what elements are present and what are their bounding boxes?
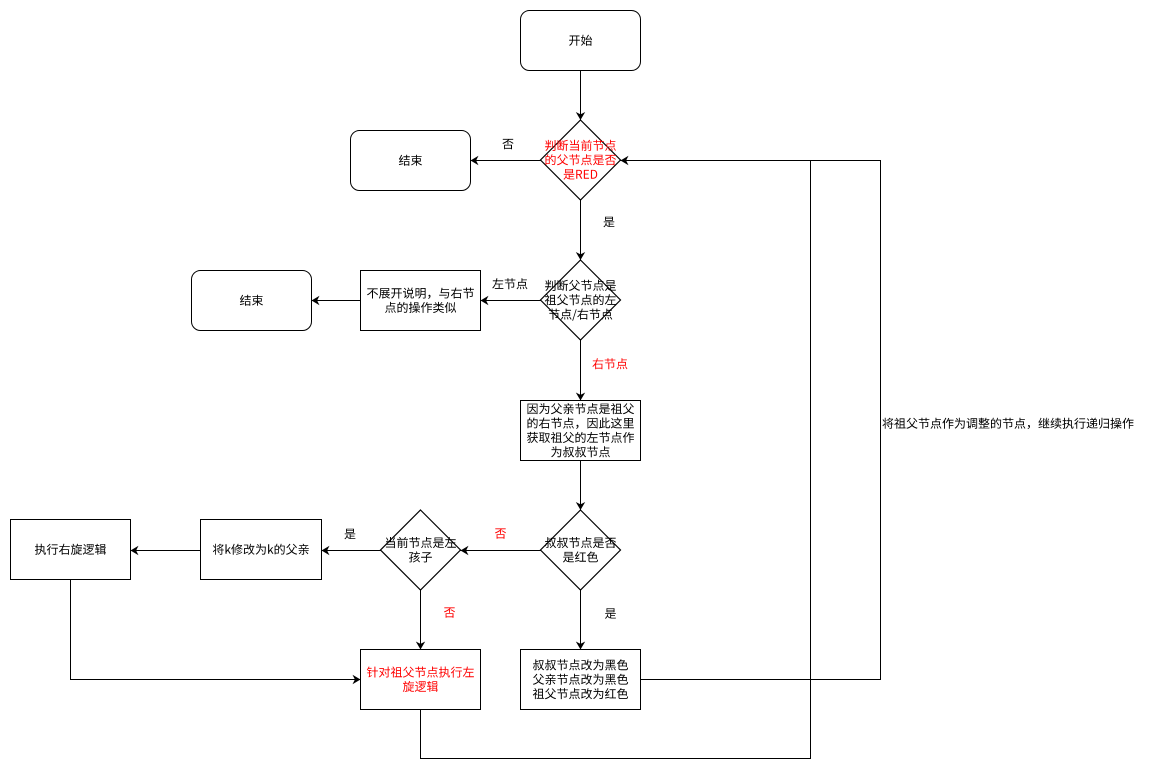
label yes below decision-red (603, 217, 614, 228)
label uncle-not-red no (495, 528, 506, 538)
decision is parent RED (541, 120, 621, 200)
wire decision-side left to note (481, 296, 541, 305)
label left child branch (492, 278, 527, 289)
wire decision-side right to getuncle (576, 340, 585, 401)
process right rotate (11, 520, 131, 580)
decision current is left child (381, 510, 461, 590)
wire getuncle to decision-uncle (576, 461, 585, 511)
wire decision-leftchild no to leftrotate (416, 590, 425, 650)
process recolor nodes (521, 650, 641, 710)
label loop explanation (883, 418, 1134, 429)
label leftchild yes (344, 529, 355, 540)
wire setk to rightrotate (131, 546, 201, 555)
wire start to decision-red (576, 71, 585, 121)
wire recolor loop back to decision-red (621, 156, 881, 680)
process left rotate grandparent (361, 650, 481, 710)
wire note to end2 (312, 296, 361, 305)
label right child branch (592, 358, 627, 369)
terminator start (521, 11, 641, 71)
wire decision-red no to end1 (471, 156, 541, 165)
wire decision-uncle yes to recolor (576, 590, 585, 650)
label uncle-red yes (605, 608, 616, 619)
label no to end1 (502, 139, 513, 149)
decision uncle is red (541, 510, 621, 590)
wire decision-red yes to decision-side (576, 200, 585, 260)
terminator end2 (192, 271, 312, 331)
wire rightrotate to leftrotate elbow (71, 580, 361, 685)
wire decision-leftchild yes to setk (322, 546, 381, 555)
process note left case (361, 271, 481, 331)
wire leftrotate loop back bottom (421, 161, 811, 759)
process set k to parent (201, 520, 322, 580)
wire decision-uncle no to decision-leftchild (461, 546, 541, 555)
decision parent left or right child (541, 260, 621, 340)
label leftchild no (444, 607, 455, 617)
process get uncle node (521, 401, 641, 461)
terminator end1 (351, 131, 471, 191)
